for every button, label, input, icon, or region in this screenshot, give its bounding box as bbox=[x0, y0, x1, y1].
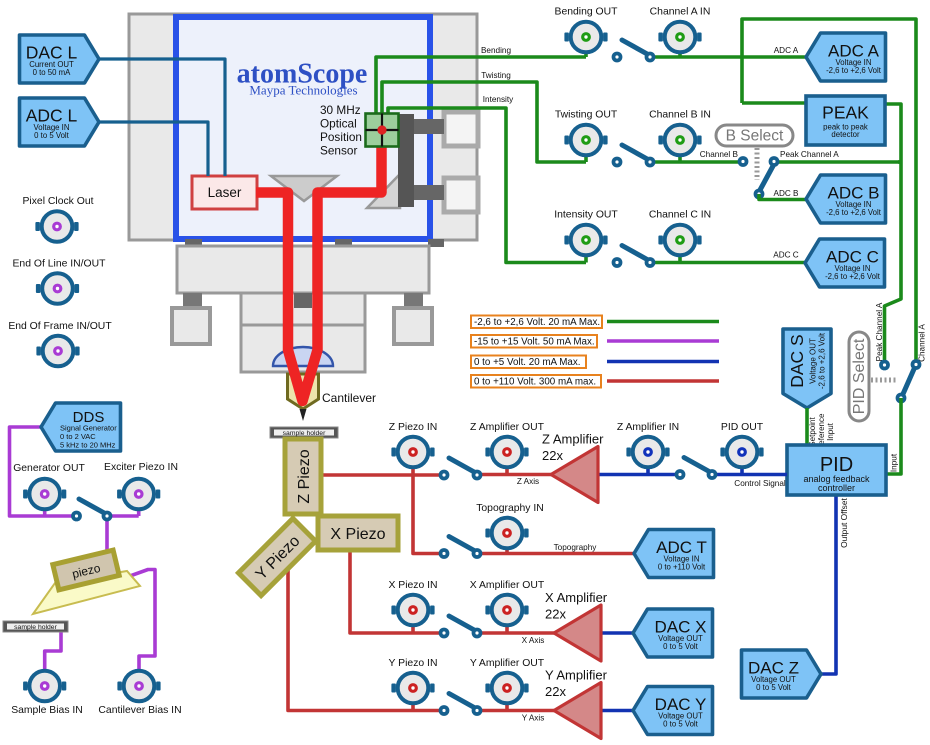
B select dashed link bbox=[755, 148, 760, 180]
wire Y amplifier to DAC Y bbox=[598, 709, 633, 713]
wire PID input bbox=[886, 398, 901, 474]
wire intensity row stems bbox=[584, 255, 588, 263]
bottom sample holder bar bbox=[3, 621, 68, 632]
BNC connector End Of Frame IN/OUT bbox=[36, 336, 79, 367]
Z piezo block bbox=[285, 439, 321, 514]
wire Z amplifier output bbox=[597, 473, 680, 477]
objective lens dome bbox=[273, 347, 333, 366]
svg-text:B Select: B Select bbox=[726, 128, 784, 145]
wire bending row stems and run bbox=[584, 50, 588, 57]
tab left under frame bbox=[185, 239, 202, 247]
svg-text:Maypa Technologies: Maypa Technologies bbox=[249, 83, 357, 98]
svg-text:Generator OUT: Generator OUT bbox=[13, 463, 85, 474]
svg-text:Output Offset: Output Offset bbox=[839, 498, 849, 548]
block PEAK detector bbox=[806, 96, 885, 145]
BNC connector Cantilever Bias IN bbox=[117, 671, 160, 702]
svg-text:Channel C IN: Channel C IN bbox=[649, 210, 711, 221]
svg-text:Optical: Optical bbox=[320, 117, 357, 131]
BNC connector Generator OUT bbox=[23, 479, 66, 510]
wire Z piezo to switch bbox=[321, 473, 444, 477]
block ADC T bbox=[634, 530, 714, 578]
wire piezo to cantilever bias IN bbox=[127, 570, 155, 670]
BNC connector End Of Line IN/OUT bbox=[36, 273, 79, 304]
svg-text:Pixel Clock Out: Pixel Clock Out bbox=[22, 196, 93, 207]
purple stems bbox=[43, 505, 47, 516]
svg-text:-2,6 to +2,6 Volt: -2,6 to +2,6 Volt bbox=[826, 66, 882, 75]
svg-text:X Piezo IN: X Piezo IN bbox=[388, 580, 437, 591]
stage slab bbox=[177, 246, 429, 293]
BNC connector Y Amplifier OUT bbox=[485, 673, 528, 704]
wire control signal bbox=[712, 473, 787, 477]
center column tab bbox=[294, 293, 312, 308]
Y piezo block bbox=[238, 518, 315, 595]
switch X row bbox=[439, 616, 483, 638]
node Channel A end bbox=[911, 359, 922, 370]
svg-text:X Piezo: X Piezo bbox=[330, 526, 385, 543]
svg-text:X Axis: X Axis bbox=[522, 636, 545, 645]
svg-text:Y Piezo IN: Y Piezo IN bbox=[389, 658, 438, 669]
BNC connector Channel A IN bbox=[658, 22, 701, 53]
switch generator out bbox=[71, 499, 112, 521]
cantilever tip bbox=[300, 409, 307, 421]
svg-text:Channel A IN: Channel A IN bbox=[650, 7, 711, 18]
svg-text:Intensity OUT: Intensity OUT bbox=[554, 210, 618, 221]
block ADC B bbox=[806, 175, 886, 223]
block PID bbox=[787, 445, 886, 495]
BNC connector Exciter Piezo IN bbox=[117, 479, 160, 510]
svg-text:Sample Bias IN: Sample Bias IN bbox=[11, 705, 83, 716]
svg-text:0 to 5 Volt: 0 to 5 Volt bbox=[34, 131, 70, 140]
block DAC Z bbox=[742, 650, 822, 698]
svg-text:Z Amplifier IN: Z Amplifier IN bbox=[617, 422, 679, 433]
svg-text:Setpoint: Setpoint bbox=[808, 417, 817, 447]
wire twisting to channel B node bbox=[650, 160, 743, 164]
wire channel A loop to PID select bbox=[742, 19, 916, 365]
block DDS bbox=[41, 403, 121, 451]
svg-text:Y Amplifier: Y Amplifier bbox=[545, 668, 608, 683]
wire DAC L to laser bbox=[99, 59, 225, 176]
svg-text:0 to 5 Volt: 0 to 5 Volt bbox=[756, 683, 792, 692]
svg-text:End Of Frame IN/OUT: End Of Frame IN/OUT bbox=[8, 321, 112, 332]
svg-text:22x: 22x bbox=[545, 684, 566, 699]
legend box green bbox=[471, 316, 602, 329]
wire switch to Z amplifier bbox=[477, 473, 552, 477]
svg-text:-2,6 to +2,6 Volt. 20 mA Max.: -2,6 to +2,6 Volt. 20 mA Max. bbox=[474, 317, 600, 328]
svg-text:Twisting OUT: Twisting OUT bbox=[555, 110, 618, 121]
svg-text:30 MHz: 30 MHz bbox=[320, 103, 361, 117]
legend line purple bbox=[607, 339, 719, 343]
svg-text:0 to +110 Volt: 0 to +110 Volt bbox=[658, 563, 706, 572]
wire X piezo to switch bbox=[350, 550, 444, 633]
laser beam bbox=[256, 146, 382, 401]
center column upper block bbox=[241, 293, 365, 325]
svg-text:Intensity: Intensity bbox=[483, 95, 514, 104]
svg-text:Twisting: Twisting bbox=[481, 71, 511, 80]
wire twisting row stems bbox=[584, 155, 588, 162]
wire switch to X amplifier bbox=[477, 631, 554, 635]
legend box blue bbox=[471, 356, 586, 369]
Z amplifier triangle bbox=[551, 447, 598, 503]
BNC connector Channel B IN bbox=[658, 125, 701, 156]
tab right under frame bbox=[428, 239, 444, 247]
BNC connector X Piezo IN bbox=[391, 595, 434, 626]
svg-text:Cantilever: Cantilever bbox=[322, 391, 376, 405]
svg-text:DAC S: DAC S bbox=[787, 334, 807, 387]
wire channel C to ADC C bbox=[650, 261, 805, 265]
cantilever pentagon bbox=[288, 374, 319, 409]
svg-text:Control Signal: Control Signal bbox=[734, 479, 786, 488]
svg-text:Bending: Bending bbox=[481, 46, 511, 55]
PID Select rounded box bbox=[849, 332, 869, 421]
legend line green bbox=[607, 320, 719, 324]
right foot block bbox=[394, 308, 432, 344]
svg-text:Position: Position bbox=[320, 130, 362, 144]
svg-text:Peak Channel A: Peak Channel A bbox=[780, 150, 839, 159]
sample holder top bar bbox=[270, 427, 338, 438]
BNC connector PID OUT bbox=[720, 437, 763, 468]
svg-text:0 to 5 Volt: 0 to 5 Volt bbox=[663, 642, 699, 651]
wire ADC L to laser bbox=[99, 122, 208, 176]
wire branch to topography switch bbox=[413, 475, 444, 554]
svg-text:Y Amplifier OUT: Y Amplifier OUT bbox=[470, 658, 545, 669]
node Peak Channel A bbox=[769, 156, 780, 167]
PID select dashed link bbox=[871, 378, 898, 383]
wire to ADC B bbox=[759, 194, 806, 200]
svg-text:Laser: Laser bbox=[208, 185, 242, 200]
svg-text:Z Amplifier OUT: Z Amplifier OUT bbox=[470, 422, 545, 433]
piezo exciter light cone bbox=[33, 571, 140, 614]
wire into PEAK bbox=[742, 101, 806, 105]
PID select blade switch bbox=[896, 369, 914, 403]
quadrant position sensor bbox=[366, 114, 399, 147]
BNC connector Z Amplifier IN bbox=[626, 437, 669, 468]
svg-text:ADC C: ADC C bbox=[773, 251, 799, 260]
BNC connector Z Amplifier OUT bbox=[485, 437, 528, 468]
svg-text:-2,6 to +2,6 Volt: -2,6 to +2,6 Volt bbox=[825, 272, 881, 281]
right foot stem bbox=[404, 293, 423, 309]
legend line red bbox=[607, 379, 719, 383]
svg-text:Z Piezo: Z Piezo bbox=[296, 449, 313, 503]
wire sample holder to sample bias IN bbox=[45, 631, 61, 669]
block ADC A bbox=[806, 33, 886, 81]
piezo exciter block bbox=[53, 550, 119, 590]
svg-text:Z Axis: Z Axis bbox=[517, 477, 539, 486]
switch Z row bbox=[439, 458, 483, 480]
switch bending bbox=[612, 40, 656, 62]
right white square lower bbox=[444, 178, 478, 212]
wire X amplifier to DAC X bbox=[598, 631, 633, 635]
svg-text:controller: controller bbox=[818, 483, 855, 493]
svg-text:sample holder: sample holder bbox=[283, 430, 326, 437]
svg-text:ADC A: ADC A bbox=[774, 46, 799, 55]
wire twisting from sensor bbox=[382, 82, 586, 162]
svg-text:5 kHz to 20 MHz: 5 kHz to 20 MHz bbox=[60, 441, 116, 450]
left foot block bbox=[172, 308, 210, 344]
svg-text:Channel B IN: Channel B IN bbox=[649, 110, 711, 121]
svg-text:Channel A: Channel A bbox=[918, 324, 927, 362]
svg-text:Bending OUT: Bending OUT bbox=[555, 7, 619, 18]
svg-text:detector: detector bbox=[831, 130, 860, 139]
photodetector mount arm upper bbox=[412, 119, 444, 134]
svg-text:-15 to +15 Volt. 50 mA Max.: -15 to +15 Volt. 50 mA Max. bbox=[474, 337, 595, 348]
wire peak channel A row bbox=[774, 160, 901, 164]
wire Y piezo to switch bbox=[288, 569, 444, 711]
mirror triangle bbox=[367, 174, 400, 208]
node Peak Channel A end bbox=[879, 360, 890, 371]
switch PID out row bbox=[675, 458, 718, 480]
svg-text:22x: 22x bbox=[542, 448, 563, 463]
left foot stem bbox=[183, 293, 202, 309]
block DAC Y bbox=[633, 687, 713, 735]
svg-text:PID: PID bbox=[820, 454, 853, 476]
BNC connector Y Piezo IN bbox=[391, 673, 434, 704]
switch twisting bbox=[612, 145, 656, 167]
block DAC X bbox=[633, 609, 713, 657]
legend box red bbox=[471, 375, 601, 388]
right white square upper bbox=[444, 112, 478, 146]
svg-text:PID Select: PID Select bbox=[851, 338, 868, 414]
photodetector mount bar bbox=[398, 114, 414, 207]
svg-text:Exciter Piezo IN: Exciter Piezo IN bbox=[104, 462, 178, 473]
svg-text:Z Amplifier: Z Amplifier bbox=[542, 432, 604, 447]
svg-text:Topography: Topography bbox=[554, 543, 598, 552]
svg-text:0 to +110 Volt. 300 mA max.: 0 to +110 Volt. 300 mA max. bbox=[474, 377, 596, 388]
tab middle under frame bbox=[335, 239, 352, 247]
block ADC C bbox=[805, 239, 885, 287]
svg-text:0 to 5 Volt: 0 to 5 Volt bbox=[663, 720, 699, 729]
junction jog note bbox=[898, 160, 901, 164]
red stems bbox=[411, 460, 415, 475]
node Channel B bbox=[738, 156, 749, 167]
svg-text:Topography IN: Topography IN bbox=[476, 503, 544, 514]
svg-text:Cantilever Bias IN: Cantilever Bias IN bbox=[98, 705, 181, 716]
block ADC L bbox=[20, 98, 100, 146]
svg-text:-2,6 to +2,6 Volt: -2,6 to +2,6 Volt bbox=[826, 208, 882, 217]
switch Y row bbox=[439, 694, 483, 716]
BNC connector Sample Bias IN bbox=[23, 671, 66, 702]
microscope blue frame enclosure bbox=[176, 17, 430, 239]
X amplifier triangle bbox=[554, 605, 601, 661]
Y amplifier triangle bbox=[554, 683, 601, 739]
legend line blue bbox=[607, 360, 719, 364]
svg-text:-2,6 to +2,6 Volt: -2,6 to +2,6 Volt bbox=[818, 332, 827, 389]
svg-text:Peak Channel A: Peak Channel A bbox=[875, 302, 884, 361]
beamsplitter prism triangle bbox=[271, 176, 337, 201]
BNC connector Intensity OUT bbox=[564, 225, 607, 256]
svg-text:Y Axis: Y Axis bbox=[522, 714, 545, 723]
B select blade switch bbox=[754, 166, 773, 199]
svg-text:0 to +5 Volt. 20 mA Max.: 0 to +5 Volt. 20 mA Max. bbox=[474, 357, 580, 368]
svg-text:0 to 50 mA: 0 to 50 mA bbox=[33, 68, 72, 77]
svg-text:ADC B: ADC B bbox=[773, 189, 799, 198]
laser box bbox=[192, 176, 257, 209]
BNC connector Bending OUT bbox=[564, 22, 607, 53]
wire PID output offset to DAC Z bbox=[821, 495, 836, 674]
svg-text:Input: Input bbox=[890, 453, 899, 472]
block DAC S bbox=[783, 329, 831, 408]
svg-text:End Of Line IN/OUT: End Of Line IN/OUT bbox=[13, 259, 107, 270]
BNC connector X Amplifier OUT bbox=[485, 595, 528, 626]
wire DDS to generator switch bbox=[10, 427, 77, 516]
BNC connector Channel C IN bbox=[658, 225, 701, 256]
wire PEAK output down bbox=[885, 104, 902, 365]
wire channel A to ADC A bbox=[650, 55, 806, 59]
svg-text:22x: 22x bbox=[545, 607, 566, 622]
wire topography to ADC T bbox=[477, 552, 634, 556]
svg-text:Z Piezo IN: Z Piezo IN bbox=[389, 422, 438, 433]
svg-text:sample holder: sample holder bbox=[14, 624, 57, 631]
photodetector mount arm lower bbox=[412, 185, 444, 200]
BNC connector Topography IN bbox=[485, 518, 528, 549]
wire DAC S to PID bbox=[805, 408, 809, 445]
center column lower block bbox=[241, 325, 365, 372]
switch intensity bbox=[612, 246, 656, 268]
svg-text:X Amplifier OUT: X Amplifier OUT bbox=[470, 580, 545, 591]
wire switch to Y amplifier bbox=[477, 709, 554, 713]
wire to exciter piezo bbox=[107, 514, 139, 518]
wire to piezo exciter block bbox=[105, 516, 109, 554]
wire bending from sensor bbox=[376, 57, 586, 114]
svg-text:X Amplifier: X Amplifier bbox=[545, 590, 608, 605]
svg-text:PID OUT: PID OUT bbox=[721, 422, 764, 433]
B Select rounded box bbox=[716, 125, 793, 146]
svg-text:Input: Input bbox=[826, 422, 835, 441]
svg-text:Channel B: Channel B bbox=[700, 150, 739, 159]
BNC connector Z Piezo IN bbox=[391, 437, 434, 468]
BNC connector Twisting OUT bbox=[564, 125, 607, 156]
BNC connector Pixel Clock Out bbox=[35, 211, 78, 242]
switch topography row bbox=[439, 537, 483, 559]
svg-text:PEAK: PEAK bbox=[822, 103, 869, 123]
legend box purple bbox=[471, 335, 597, 348]
blue stems bbox=[646, 460, 650, 475]
block DAC L bbox=[20, 35, 100, 83]
microscope outer gray housing bbox=[129, 14, 477, 240]
wire intensity from sensor bbox=[388, 108, 586, 263]
svg-text:Voltage OUT: Voltage OUT bbox=[809, 338, 818, 384]
svg-text:Sensor: Sensor bbox=[320, 144, 357, 158]
X piezo block bbox=[318, 516, 398, 550]
